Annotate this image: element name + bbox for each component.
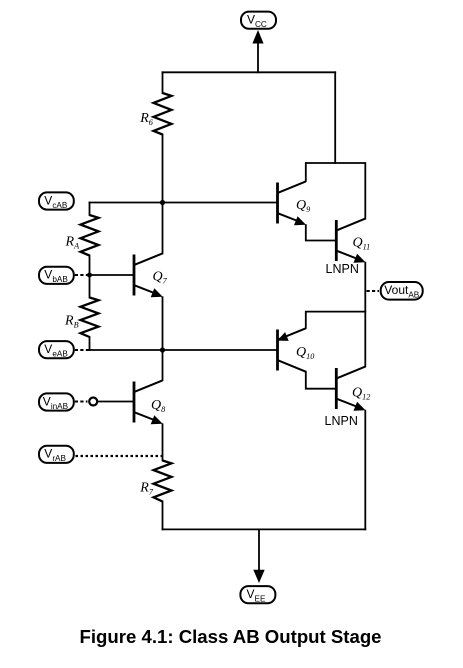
wire Q11 emitter to output node [364, 263, 366, 367]
resistor R7 [154, 461, 172, 502]
wire circle to Q8 base [98, 401, 134, 403]
label VrAB [39, 446, 74, 463]
wire RB to VeAB line [89, 337, 91, 350]
wire corner down to RA [89, 203, 91, 216]
power label VCC [241, 12, 276, 29]
wire RA to VbAB node [89, 256, 91, 276]
svg-text:LNPN: LNPN [326, 262, 359, 276]
wire VcAB node to Q9 base [90, 202, 277, 204]
wire Q9 emitter to Q11 base [306, 225, 336, 240]
wire Q10 emitter header [306, 312, 366, 328]
dashed wire VeAB to node [75, 349, 89, 351]
VEE supply arrow [253, 529, 264, 583]
resistor RA [81, 215, 99, 256]
wire Q12 emitter to bottom rail [364, 411, 366, 530]
label VcAB [39, 192, 74, 209]
wire right feed vertical [334, 72, 336, 163]
wire bottom rail [163, 528, 366, 530]
transistor Q12 [336, 367, 365, 411]
svg-text:LNPN: LNPN [325, 414, 358, 428]
junction dot emitter line / VeAB line [160, 347, 165, 352]
wire Q8 emitter to R7 [162, 424, 164, 460]
resistor R6 [154, 93, 172, 135]
transistor Q9 [278, 181, 307, 225]
transistor Q7 [134, 253, 163, 297]
junction dot at R6 line / VcAB line [160, 200, 165, 205]
wire R6 bottom to Q7 collector [162, 135, 164, 254]
transistor Q8 [134, 380, 163, 424]
open circle input node [89, 398, 97, 406]
dashed wire output to Vout [367, 290, 380, 292]
VCC supply arrow [252, 30, 263, 72]
wire Q7 emitter down through VeAB node to Q8 collector [162, 297, 164, 380]
wire Q10 collector to Q12 base [306, 372, 336, 389]
dashed wire VinAB to open circle [75, 401, 88, 403]
wire VbAB node down to RB [89, 275, 91, 298]
junction dot RA/RB/VbAB [87, 273, 92, 278]
label VbAB [39, 267, 74, 284]
dotted wire VrAB to R7 node [76, 455, 162, 457]
dashed wire VbAB to node [75, 274, 89, 276]
label VoutAB [381, 282, 423, 300]
wire VbAB node to Q7 base [90, 274, 134, 276]
wire R7 to bottom rail [162, 502, 164, 530]
label VeAB [39, 341, 74, 358]
svg-text:Figure 4.1: Class AB Output St: Figure 4.1: Class AB Output Stage [80, 626, 382, 647]
transistor Q10 (PNP) [277, 328, 306, 371]
label VinAB [39, 393, 74, 410]
wire Q9/Q11 collector header [306, 163, 366, 219]
resistor RB [81, 298, 99, 338]
wire top rail [163, 71, 336, 73]
wire VeAB node to Q10 base [90, 349, 277, 351]
wire left vertical top (rail to R6) [162, 72, 164, 93]
transistor Q11 [336, 219, 365, 263]
power label VEE [240, 586, 275, 603]
